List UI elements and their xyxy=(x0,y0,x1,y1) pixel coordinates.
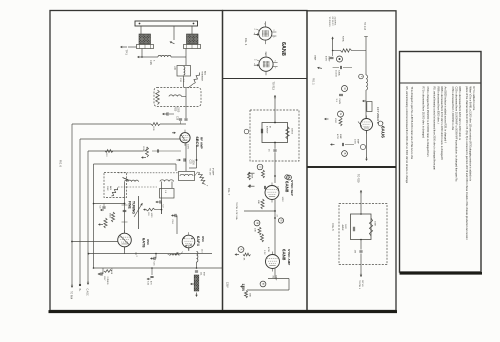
svg-text:OSC: OSC xyxy=(201,236,205,242)
svg-text:4700: 4700 xyxy=(336,134,338,140)
svg-text:100V: 100V xyxy=(281,197,283,203)
svg-text:When V3 is a 6AN8, a 2,200 ohm: When V3 is a 6AN8, a 2,200 ohm 1/2 watt … xyxy=(469,87,473,182)
svg-text:OSC: OSC xyxy=(146,239,150,245)
svg-text:J: J xyxy=(360,76,362,77)
svg-text:R71 is decreased from 18,000 o: R71 is decreased from 18,000 ohm. is cha… xyxy=(422,87,426,139)
svg-text:6AU6: 6AU6 xyxy=(381,126,386,138)
svg-text:25MF: 25MF xyxy=(328,56,330,62)
svg-text:R89 is increased from 8200 ohm: R89 is increased from 8200 ohm. i xyxy=(436,87,440,125)
svg-text:An OBZ9 isolator is added acro: An OBZ9 isolator is added across R38. is… xyxy=(444,87,448,143)
svg-text:1000: 1000 xyxy=(187,246,189,252)
svg-text:G: G xyxy=(339,113,343,115)
svg-text:10K: 10K xyxy=(254,228,256,232)
svg-text:TRIMMER: TRIMMER xyxy=(201,71,203,82)
svg-text:OSC: OSC xyxy=(106,186,108,191)
svg-text:R68 is decreased from 2700 ohm: R68 is decreased from 2700 ohm to 1800 o… xyxy=(440,87,444,161)
svg-text:100V: 100V xyxy=(187,144,189,150)
svg-text:TO C13: TO C13 xyxy=(363,22,365,31)
svg-text:1000: 1000 xyxy=(192,160,194,166)
svg-text:C39 is increased from 7,000MMF: C39 is increased from 7,000MMF. is cha xyxy=(451,87,455,131)
svg-text:TO PIN 1: TO PIN 1 xyxy=(358,280,360,290)
svg-text:330K: 330K xyxy=(374,221,376,227)
svg-text:C47B: C47B xyxy=(338,99,340,105)
svg-text:47MMF: 47MMF xyxy=(266,126,268,134)
svg-text:C17A: C17A xyxy=(110,269,113,275)
svg-text:2.2MEG: 2.2MEG xyxy=(106,277,108,285)
svg-text:.1M: .1M xyxy=(354,250,356,254)
svg-text:3.2V: 3.2V xyxy=(263,250,265,255)
svg-text:TO R29: TO R29 xyxy=(357,174,360,183)
svg-text:TUNING: TUNING xyxy=(132,201,136,214)
svg-text:C23 is decreased from 10,000MM: C23 is decreased from 10,000MMF to 5000M… xyxy=(455,87,459,183)
svg-text:R77 is added in some.: R77 is added in some. xyxy=(472,87,476,112)
svg-text:SYNC SEP: SYNC SEP xyxy=(290,180,294,196)
svg-text:TP-1: TP-1 xyxy=(125,50,128,56)
svg-text:B: B xyxy=(343,153,347,155)
svg-text:SYNC AMP: SYNC AMP xyxy=(287,249,291,265)
svg-text:36K: 36K xyxy=(249,293,251,297)
svg-text:FIG. 6: FIG. 6 xyxy=(59,160,62,168)
svg-text:K: K xyxy=(240,249,244,251)
svg-text:C45A: C45A xyxy=(338,70,341,76)
svg-text:OF 21JC/: OF 21JC/ xyxy=(331,17,333,26)
svg-text:R5, vertical linearity control: R5, vertical linearity control is increa… xyxy=(405,87,409,184)
svg-text:D: D xyxy=(343,88,347,90)
svg-text:TO PIN 1 OF V1A: TO PIN 1 OF V1A xyxy=(235,202,238,220)
svg-text:R30: R30 xyxy=(174,107,176,112)
svg-text:470K: 470K xyxy=(267,247,269,253)
svg-text:6AN8: 6AN8 xyxy=(285,181,290,193)
svg-text:6AN8: 6AN8 xyxy=(280,42,286,56)
svg-text:6AT8: 6AT8 xyxy=(141,238,146,248)
svg-text:ADJ: ADJ xyxy=(204,71,207,75)
svg-text:R47A: R47A xyxy=(342,36,345,42)
svg-text:130V: 130V xyxy=(277,186,279,192)
svg-text:IF AMP: IF AMP xyxy=(212,168,215,176)
svg-text:R88 is decreased from 2200 ohm: R88 is decreased from 2200 ohm to 1800 o… xyxy=(458,87,462,141)
svg-text:125V: 125V xyxy=(226,282,229,288)
svg-text:6BC5: 6BC5 xyxy=(195,137,200,148)
svg-text:1000: 1000 xyxy=(354,139,356,145)
svg-text:MMF: MMF xyxy=(339,134,341,140)
svg-text:4MMF: 4MMF xyxy=(341,225,343,232)
svg-text:C AGC: C AGC xyxy=(86,289,89,296)
svg-text:OF V9: OF V9 xyxy=(361,280,363,287)
svg-text:6AN8: 6AN8 xyxy=(282,249,287,261)
svg-text:RF AMP: RF AMP xyxy=(200,137,204,149)
svg-text:25MF: 25MF xyxy=(314,55,316,61)
svg-text:FIG. 3: FIG. 3 xyxy=(244,38,248,46)
svg-text:TO 1ST: TO 1ST xyxy=(209,168,211,176)
svg-text:10-160: 10-160 xyxy=(335,70,337,78)
svg-text:21JN PIX: 21JN PIX xyxy=(334,17,336,26)
svg-text:TO PIN 10: TO PIN 10 xyxy=(328,17,330,28)
svg-text:T6 is changed to part No. A-89: T6 is changed to part No. A-8976-115 in … xyxy=(410,87,414,160)
svg-text:ADJ: ADJ xyxy=(109,186,112,190)
svg-text:1000: 1000 xyxy=(150,213,152,219)
svg-text:C1B: C1B xyxy=(149,60,152,65)
svg-text:TO R13: TO R13 xyxy=(272,82,275,91)
svg-text:FIG. 1: FIG. 1 xyxy=(311,78,314,85)
svg-text:400V: 400V xyxy=(325,56,327,62)
svg-text:place of the channel wire from: place of the channel wire from R4 to V3.… xyxy=(465,87,469,241)
svg-text:X: X xyxy=(259,166,263,168)
svg-text:MMF: MMF xyxy=(357,139,359,145)
svg-text:R5, vertical linearity control: R5, vertical linearity control is increa… xyxy=(433,87,437,171)
svg-text:M: M xyxy=(256,222,260,224)
svg-text:39000: 39000 xyxy=(291,128,293,135)
svg-text:M: M xyxy=(269,126,271,128)
svg-text:FIG. 7: FIG. 7 xyxy=(227,188,231,196)
svg-text:100K: 100K xyxy=(251,174,253,179)
svg-text:6800: 6800 xyxy=(109,213,111,219)
svg-text:1ST VIDEO IF: 1ST VIDEO IF xyxy=(376,107,380,124)
svg-text:6AF4: 6AF4 xyxy=(196,236,201,247)
svg-text:TO R64: TO R64 xyxy=(70,291,72,300)
svg-text:MIX: MIX xyxy=(203,272,205,276)
svg-text:1500: 1500 xyxy=(334,118,336,124)
svg-text:68K: 68K xyxy=(257,200,259,204)
svg-text:FIG. 5: FIG. 5 xyxy=(331,224,335,232)
svg-text:C33: C33 xyxy=(189,160,191,165)
svg-text:135V: 135V xyxy=(241,284,245,293)
svg-text:1500: 1500 xyxy=(177,107,179,113)
svg-text:C52 is changed from 250MMF to: C52 is changed from 250MMF to 270MMF lat… xyxy=(426,87,430,157)
svg-text:FINE: FINE xyxy=(128,201,132,209)
svg-text:C38: C38 xyxy=(176,116,178,121)
